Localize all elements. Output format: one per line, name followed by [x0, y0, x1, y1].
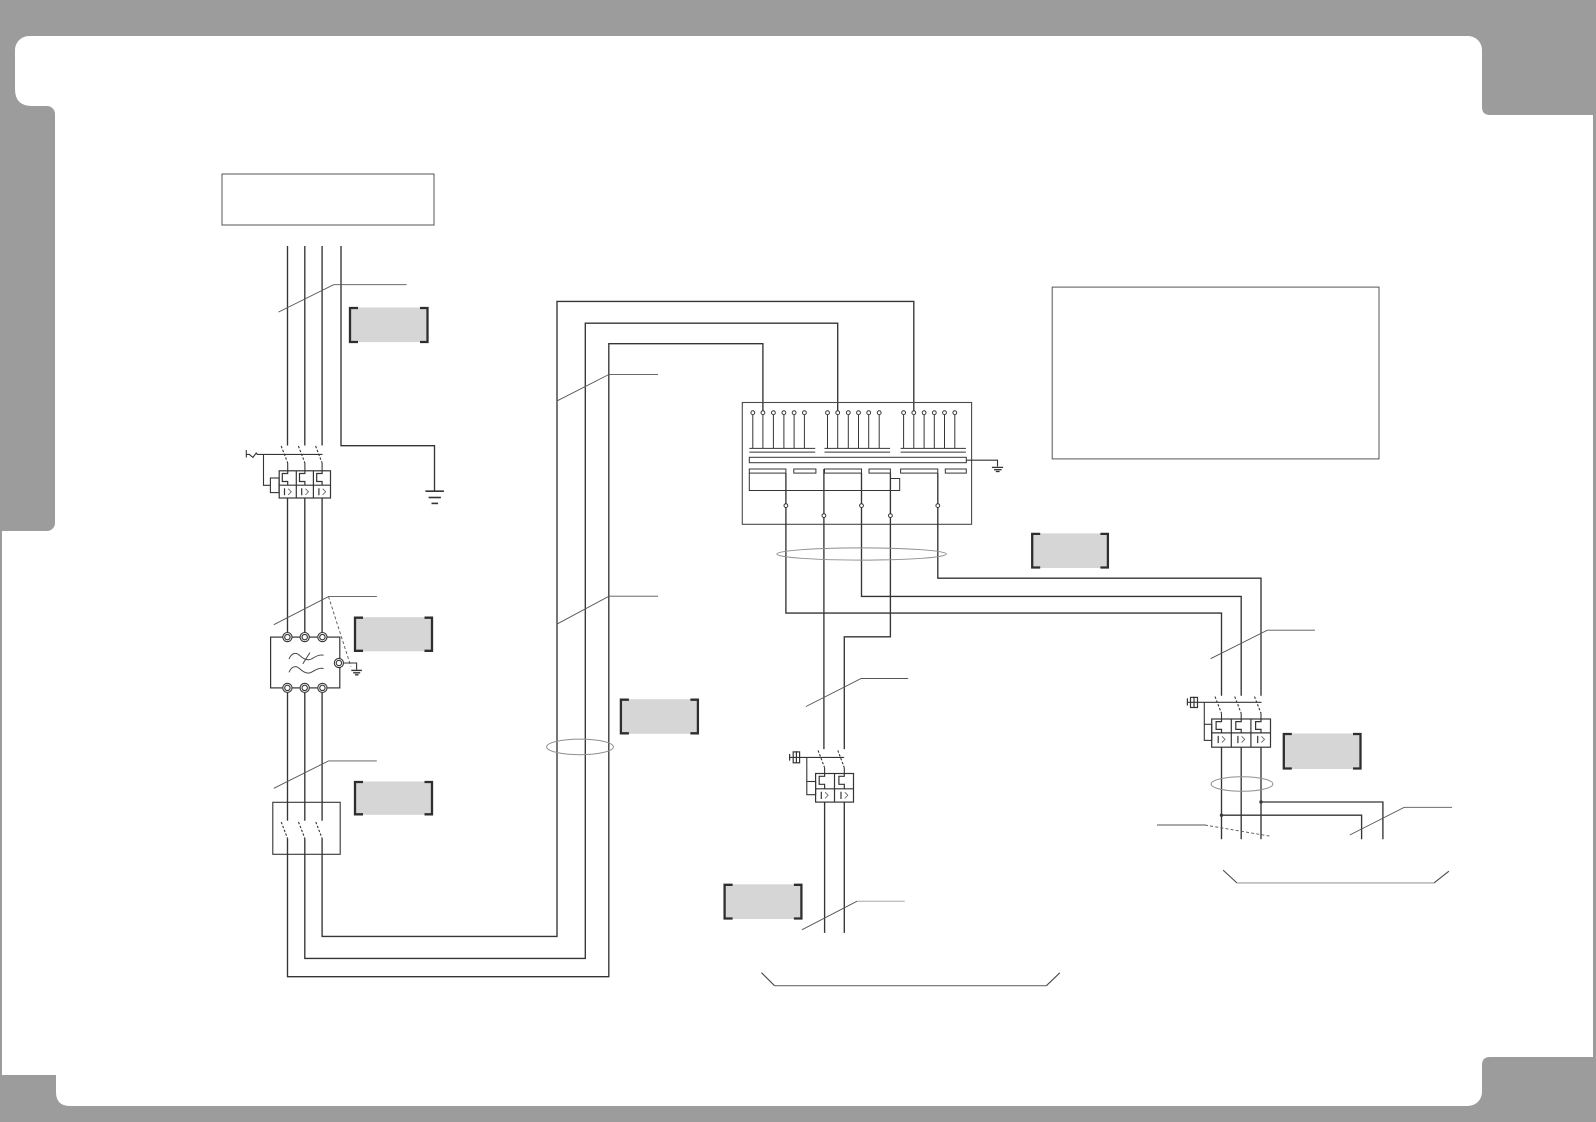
annotation bracket: to motor — [1223, 870, 1449, 883]
filter ground terminal — [334, 658, 343, 667]
X1 pins group 1 — [751, 411, 806, 449]
X1 output 3 — [860, 473, 1242, 696]
wire filter to contactor L1 — [287, 693, 289, 803]
label box: mains — [350, 308, 428, 343]
callout leader: cable lower — [557, 596, 659, 624]
noise filter Z1 body — [271, 637, 340, 688]
label box: Q2 output — [724, 884, 801, 919]
contactor pole 3 — [321, 802, 323, 820]
annotation bracket: to heater — [761, 973, 1059, 986]
breaker Q1 pole 2 blade — [298, 446, 305, 463]
X1 output 2 — [822, 469, 826, 749]
ground filter — [351, 670, 362, 674]
breaker Q2 magnetic I> symbols — [821, 792, 841, 799]
wire L2 — [304, 246, 306, 446]
label box: Q3 — [1283, 734, 1360, 770]
callout leader: mains label — [278, 285, 406, 312]
wire contactor to riser 2 — [305, 323, 838, 958]
circuit breaker Q2 handle — [790, 751, 845, 763]
wire Q3 output 2 — [1240, 747, 1242, 839]
contactor pole 2 — [304, 802, 306, 820]
cable marker ellipse X1 outputs — [777, 548, 947, 560]
wire contactor to riser 1 — [288, 344, 763, 977]
X1 output 4 — [844, 473, 892, 749]
wire Q3 output 1 — [1221, 747, 1223, 839]
callout leader: middle cable — [806, 679, 908, 707]
breaker Q3 magnetic I> symbols — [1218, 736, 1258, 743]
breaker Q3 pole 3 blade — [1255, 697, 1262, 714]
breaker Q1 magnetic I> symbols — [285, 488, 319, 495]
filter ground wire — [344, 663, 357, 670]
breaker Q3 body — [1212, 719, 1271, 747]
contactor K1 body — [273, 802, 340, 854]
wire Q1 to filter L3 — [321, 498, 323, 633]
callout leader: Q3 outputs left — [1157, 825, 1271, 836]
callout leader: contactor label — [274, 761, 377, 788]
breaker Q1 thermal elements — [282, 471, 322, 485]
wire Q3 branch upper — [1259, 800, 1383, 839]
filter wave symbol — [289, 653, 324, 673]
terminal block X1 body — [742, 403, 971, 525]
breaker Q2 pole 2 blade — [838, 750, 845, 767]
filter terminals bottom — [283, 683, 327, 692]
label box: contactor — [355, 782, 433, 815]
contactor pole 1 — [287, 802, 289, 820]
wire Q2 outputs — [825, 802, 845, 933]
callout leader: filter label — [274, 597, 377, 667]
label box: wiring — [1032, 533, 1108, 568]
breaker Q3 pole 1 blade — [1215, 697, 1222, 714]
label box: cable — [620, 699, 698, 734]
callout leader: Q3 outputs right — [1350, 807, 1452, 835]
callout leader: Q3 input cable — [1211, 630, 1315, 659]
wire L1 — [287, 246, 289, 446]
wire L3 — [321, 246, 323, 446]
wire filter to contactor L3 — [321, 693, 323, 803]
breaker Q2 thermal elements — [819, 774, 844, 789]
wire Q1 to filter L1 — [287, 498, 289, 633]
circuit breaker Q3 handle — [1187, 697, 1261, 708]
X1 output 5 — [936, 473, 1261, 696]
breaker Q2 body — [816, 774, 854, 803]
callout leader: Q2 output cable — [802, 901, 905, 930]
ground X1 — [992, 467, 1003, 471]
cable marker ellipse risers — [547, 739, 614, 755]
breaker Q3 pole 2 blade — [1235, 697, 1242, 714]
box: control PCB — [1052, 287, 1379, 459]
box: mains supply label — [222, 174, 434, 225]
wire contactor to riser 3 — [322, 301, 914, 936]
X1 group bus bars — [749, 448, 966, 452]
wire filter to contactor L2 — [304, 693, 306, 803]
label box: noise filter — [355, 617, 433, 651]
X1 pins group 3 — [902, 411, 957, 449]
callout leader: cable upper — [557, 374, 659, 401]
wire Q1 to filter L2 — [304, 498, 306, 633]
cable marker ellipse Q3 — [1211, 777, 1273, 792]
ground PE — [425, 491, 444, 503]
breaker Q3 thermal elements — [1216, 719, 1261, 733]
breaker Q1 trip linkage — [264, 454, 271, 485]
breaker Q2 pole 1 blade — [818, 750, 825, 767]
circuit breaker Q1 handle — [246, 450, 322, 458]
breaker Q3 trip linkage — [1203, 702, 1205, 724]
X1 internal link path — [749, 473, 899, 490]
X1 pins group 2 — [826, 411, 882, 449]
wire Q3 branch lower — [1220, 814, 1362, 840]
breaker Q2 trip linkage — [806, 757, 808, 781]
breaker Q1 body — [279, 471, 330, 498]
filter terminals top — [283, 633, 327, 642]
wire PE — [341, 246, 435, 491]
X1 bus to ground — [966, 460, 997, 466]
X1 lower bars — [749, 469, 966, 473]
breaker Q1 pole 1 blade — [281, 446, 288, 463]
wire Q3 output 3 — [1260, 747, 1262, 839]
X1 main bus — [749, 457, 966, 462]
breaker Q1 pole 3 blade — [316, 446, 323, 463]
X1 output 1 — [784, 473, 1222, 696]
